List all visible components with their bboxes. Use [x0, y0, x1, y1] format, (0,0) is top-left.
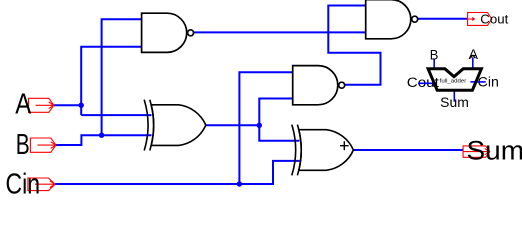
- wire NAND2 output loop to NAND3 upper input: [328, 6, 380, 85]
- svg-text:Sum: Sum: [440, 95, 469, 110]
- node junction dot Cin: [237, 181, 242, 186]
- input port A tag: [29, 98, 54, 112]
- svg-text:full_adder: full_adder: [440, 79, 467, 85]
- node junction dot XOR1 out: [257, 123, 262, 128]
- wire junction up to NAND2 lower input: [259, 99, 292, 126]
- svg-text:B: B: [430, 47, 439, 62]
- output port Cout tag: [468, 13, 492, 26]
- svg-text:Cout: Cout: [480, 12, 508, 27]
- full adder icon stub Cin: [470, 81, 485, 83]
- wire A riser to NAND1 lower input: [81, 47, 141, 115]
- xor gate X1: [144, 100, 206, 151]
- wire NAND3 output to Cout port: [417, 18, 467, 20]
- full adder U1 icon outline: [428, 69, 481, 90]
- full adder icon stub Cout: [418, 82, 436, 84]
- nand gate G1: [142, 13, 194, 52]
- plus mark at XOR2 output: [340, 141, 349, 150]
- wire Cin riser to NAND2 upper input: [239, 72, 292, 184]
- output port Sum tag: [463, 146, 490, 157]
- wire NAND1 output to NAND3 lower input: [194, 31, 366, 33]
- input port B tag: [30, 138, 55, 152]
- node junction dot A: [79, 103, 84, 108]
- nand gate G3: [366, 0, 418, 39]
- wire Cin port to XOR2 lower input: [55, 161, 300, 184]
- svg-text:A: A: [469, 47, 479, 62]
- wire junction down to XOR2 upper input: [259, 125, 299, 140]
- full adder icon stub B: [433, 59, 435, 70]
- svg-text:Cin: Cin: [6, 169, 41, 196]
- wire A port to junction: [54, 104, 81, 106]
- node junction dot B: [99, 133, 104, 138]
- svg-text:Sum: Sum: [467, 136, 522, 166]
- input port Cin tag: [28, 178, 55, 191]
- full adder U1 icon body fill: [428, 69, 481, 90]
- svg-text:B: B: [16, 129, 30, 161]
- xor gate X2: [292, 125, 354, 176]
- nand gate G2: [293, 66, 345, 105]
- wire B riser to NAND1 upper input: [102, 19, 142, 135]
- full adder icon stub Sum: [453, 91, 455, 102]
- wire B port to jog: [56, 135, 152, 145]
- full adder icon stub A: [470, 55, 475, 70]
- wire A jog to XOR1 upper input: [81, 114, 151, 116]
- svg-text:A: A: [15, 89, 32, 121]
- wire XOR2 output to Sum port: [353, 149, 463, 151]
- wire XOR1 output to junction: [206, 124, 259, 126]
